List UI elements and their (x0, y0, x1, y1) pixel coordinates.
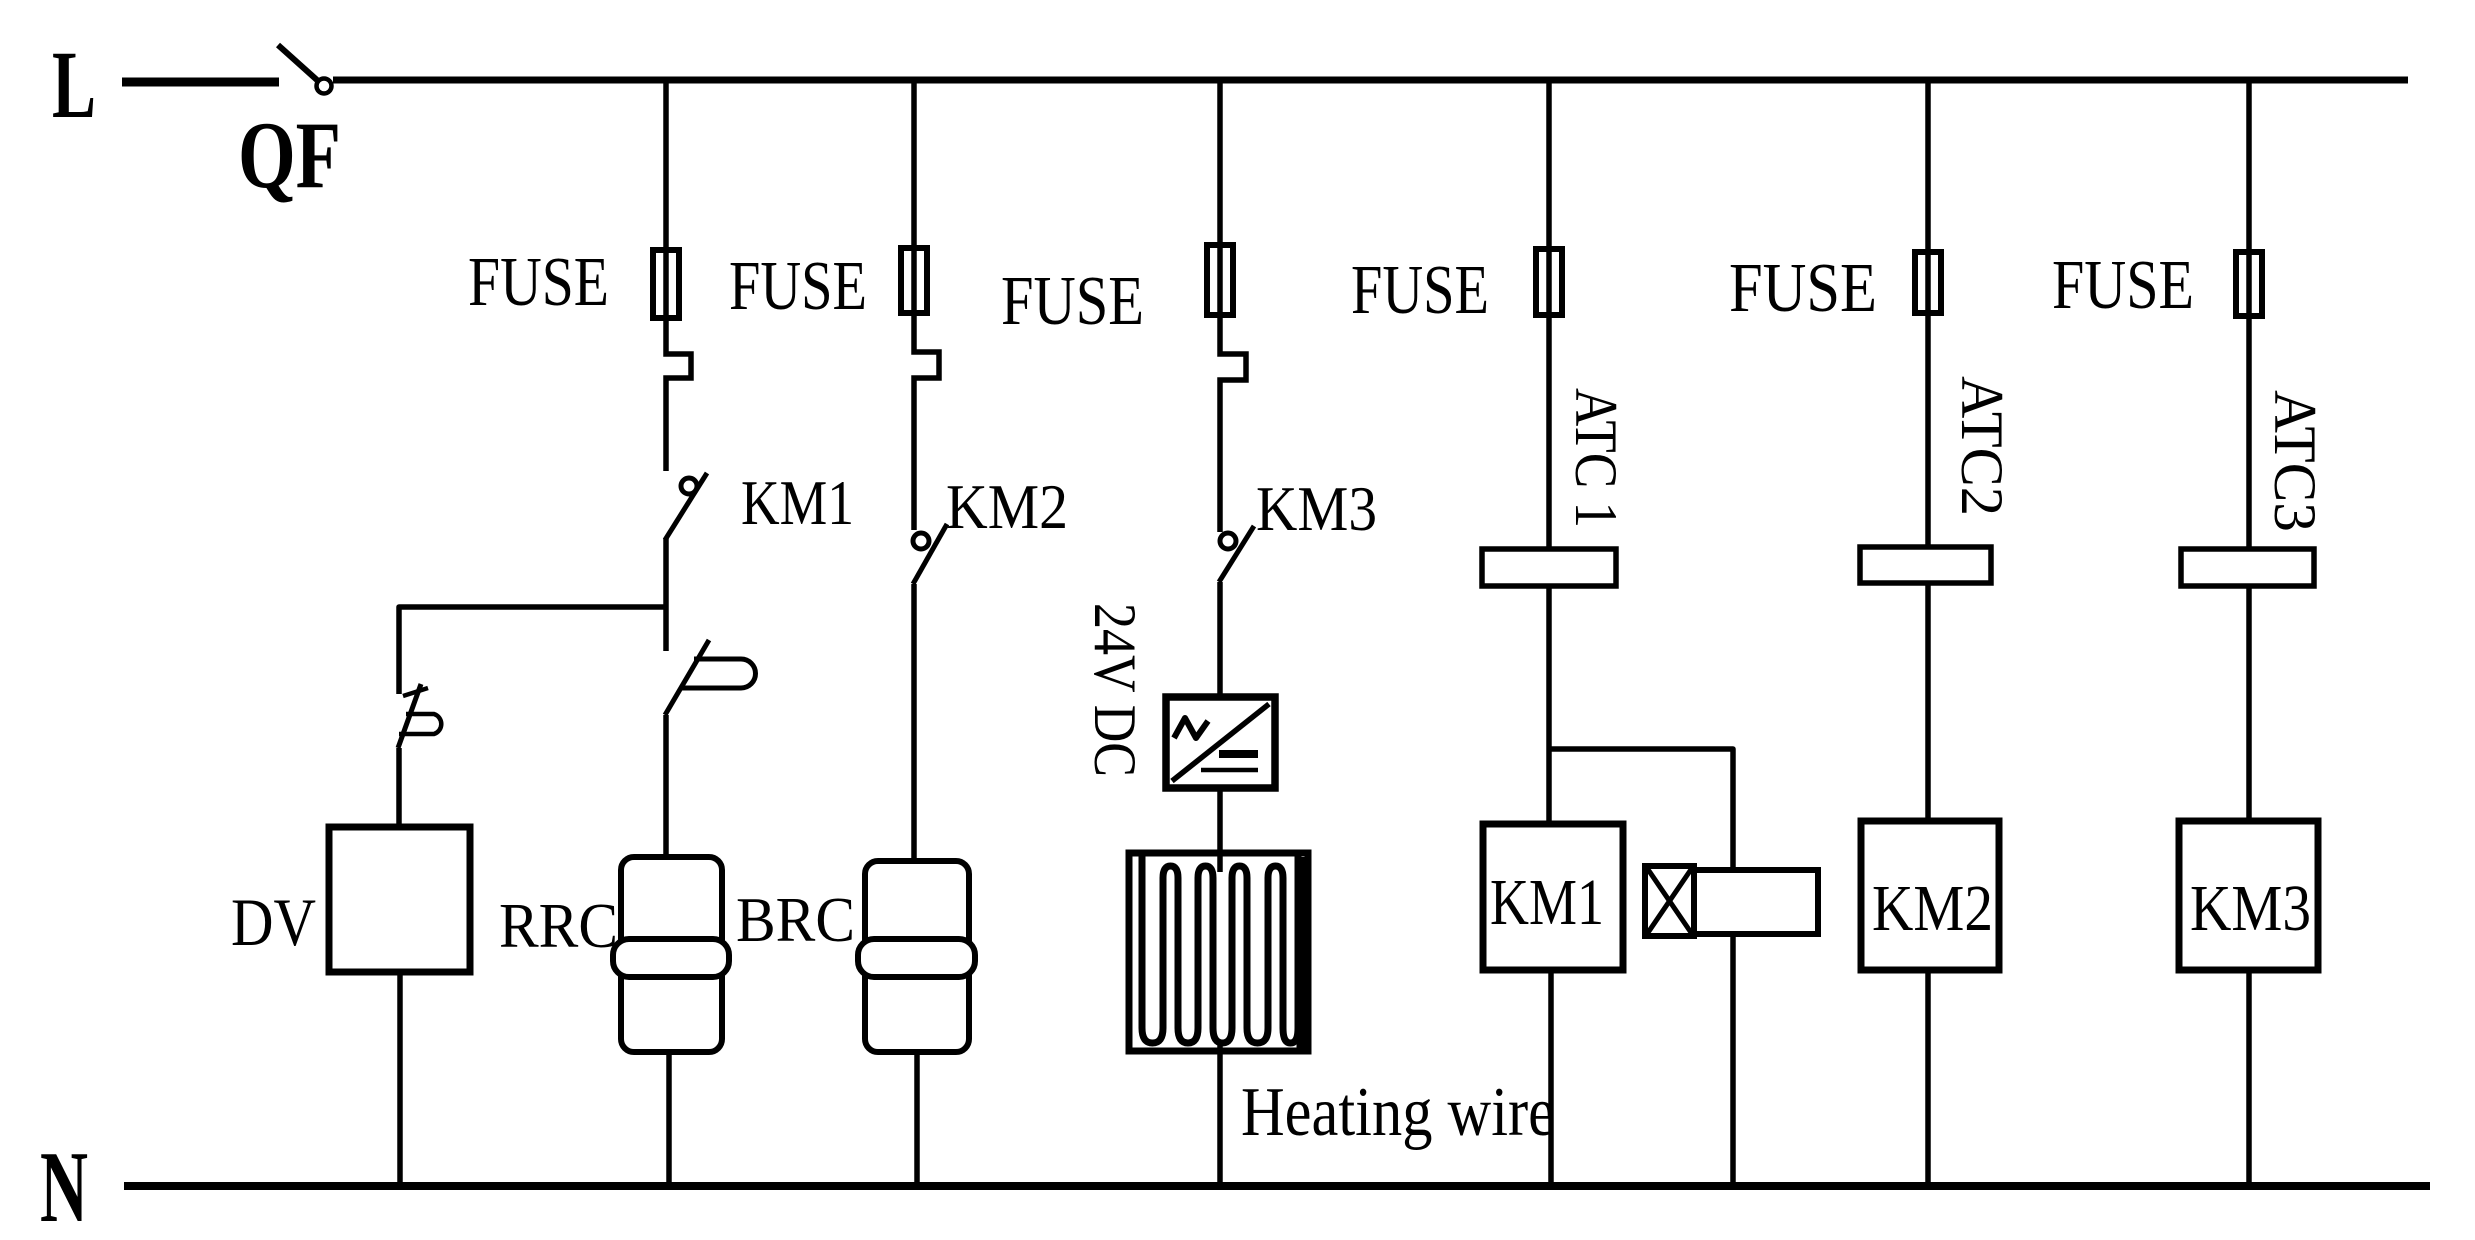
svg-text:N: N (40, 1131, 88, 1240)
svg-text:KM2: KM2 (946, 471, 1068, 542)
svg-text:QF: QF (238, 102, 341, 208)
svg-text:RRC: RRC (499, 890, 618, 961)
svg-text:L: L (52, 31, 96, 138)
svg-text:KM1: KM1 (741, 467, 854, 538)
svg-text:ATC3: ATC3 (2262, 390, 2328, 532)
svg-text:24V DC: 24V DC (1082, 603, 1148, 777)
svg-text:Heating wire: Heating wire (1241, 1074, 1555, 1151)
svg-text:FUSE: FUSE (1001, 263, 1144, 340)
svg-text:FUSE: FUSE (2052, 247, 2194, 324)
svg-text:DV: DV (231, 884, 316, 960)
svg-text:KM2: KM2 (1872, 872, 1993, 945)
svg-text:FUSE: FUSE (1729, 250, 1877, 327)
svg-text:BRC: BRC (736, 884, 855, 955)
svg-text:ATC 1: ATC 1 (1563, 388, 1629, 528)
svg-text:KM1: KM1 (1490, 866, 1604, 939)
svg-text:FUSE: FUSE (729, 248, 867, 325)
svg-text:KM3: KM3 (2190, 872, 2311, 945)
svg-text:KM3: KM3 (1256, 473, 1377, 544)
svg-text:FUSE: FUSE (468, 244, 609, 321)
svg-text:ATC2: ATC2 (1949, 376, 2015, 516)
svg-text:FUSE: FUSE (1351, 252, 1489, 329)
